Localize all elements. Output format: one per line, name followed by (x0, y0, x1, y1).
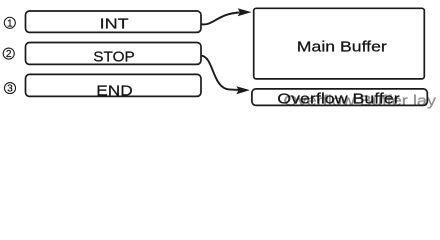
svg-text:Overflow Buffer: Overflow Buffer (277, 91, 400, 107)
svg-text:3: 3 (7, 84, 13, 95)
svg-text:INT: INT (100, 17, 129, 33)
svg-text:1: 1 (7, 18, 13, 29)
svg-text:2: 2 (6, 49, 12, 60)
svg-text:STOP: STOP (93, 50, 135, 66)
svg-text:Main Buffer: Main Buffer (297, 39, 387, 55)
svg-text:END: END (96, 84, 133, 100)
